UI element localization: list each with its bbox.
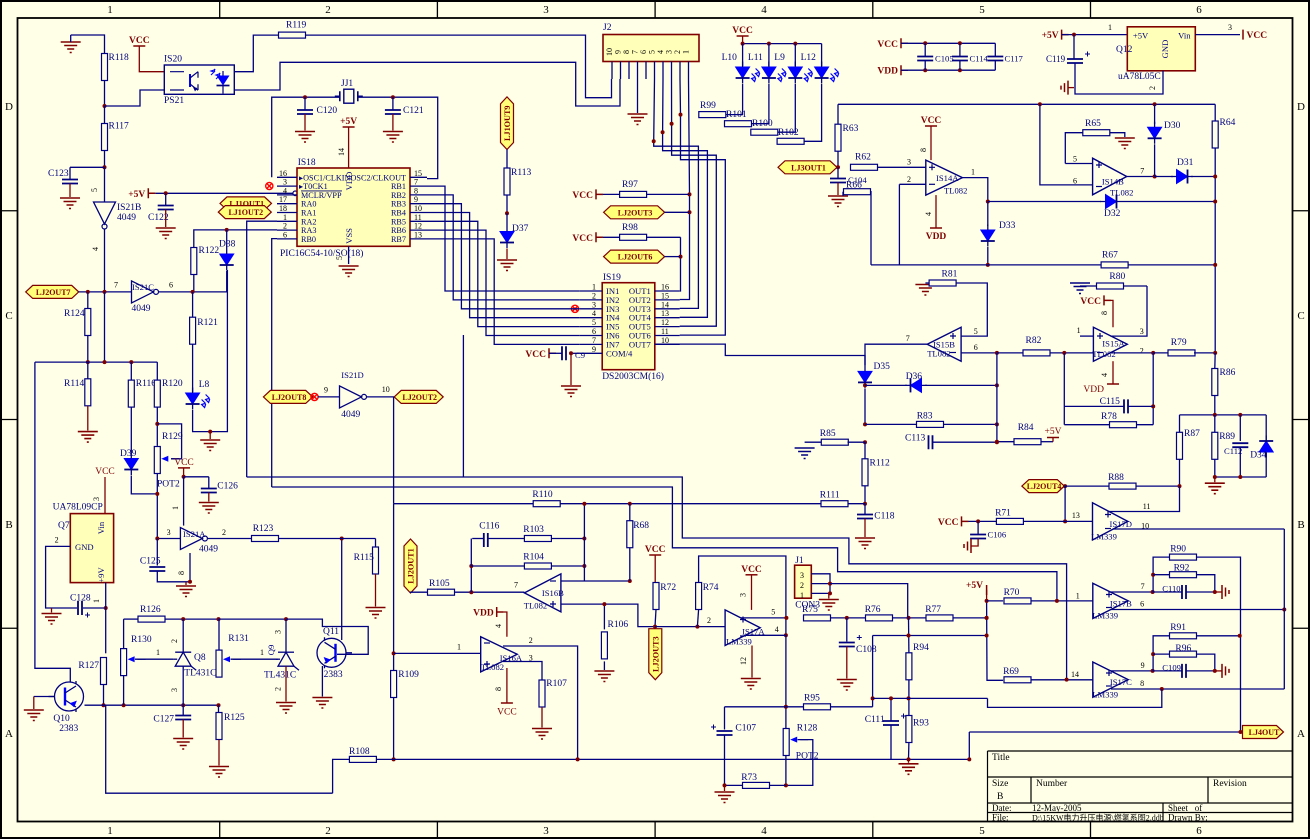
svg-text:5: 5	[335, 256, 344, 260]
svg-text:C111: C111	[865, 715, 885, 725]
svg-text:2: 2	[274, 687, 283, 691]
svg-text:C106: C106	[988, 530, 1007, 540]
svg-text:IS14B: IS14B	[1102, 177, 1124, 187]
resistor R99	[699, 101, 726, 118]
resistor R122	[191, 246, 220, 275]
svg-text:+5V: +5V	[340, 117, 357, 127]
junction	[155, 422, 159, 426]
port LJ2OUT2	[341, 370, 443, 420]
junction	[181, 617, 220, 621]
junction	[505, 211, 509, 215]
svg-text:3: 3	[167, 528, 171, 537]
port LJ2OUT6	[604, 250, 681, 263]
svg-text:R62: R62	[855, 153, 871, 163]
svg-text:RA3: RA3	[301, 226, 316, 235]
diode D38	[219, 230, 236, 271]
svg-text:JJ1: JJ1	[341, 79, 353, 89]
diode D30	[1148, 104, 1181, 144]
inverter IS21D	[318, 386, 367, 408]
power VCC	[92, 467, 115, 514]
resistor R86	[1212, 353, 1236, 415]
svg-text:C121: C121	[403, 106, 424, 116]
junction	[164, 191, 168, 195]
svg-text:5: 5	[974, 327, 978, 336]
capacitor C111	[865, 696, 906, 759]
junction	[1151, 652, 1155, 656]
resistor R103	[523, 525, 584, 542]
LED L12	[801, 44, 839, 84]
resistor R104	[471, 553, 584, 570]
svg-text:8: 8	[414, 186, 418, 195]
svg-text:MCLR/VPP: MCLR/VPP	[301, 191, 342, 200]
resistor R96	[1153, 644, 1215, 671]
junction	[182, 475, 186, 479]
wire	[873, 635, 987, 637]
resistor R118	[102, 53, 129, 81]
svg-text:B: B	[5, 519, 12, 531]
capacitor C126	[199, 477, 238, 513]
svg-text:LM339: LM339	[726, 637, 752, 647]
wire	[865, 344, 927, 366]
junction	[784, 616, 788, 620]
svg-text:C9: C9	[575, 350, 585, 360]
wire	[306, 35, 612, 98]
svg-text:12: 12	[414, 222, 422, 231]
wire	[71, 35, 105, 54]
wire	[830, 584, 908, 618]
transistor Q10	[49, 681, 84, 734]
resistor R94	[906, 618, 929, 680]
svg-text:7: 7	[414, 178, 418, 187]
diode D32	[1100, 195, 1122, 220]
svg-text:R107: R107	[546, 679, 567, 689]
svg-text:IS21C: IS21C	[132, 282, 154, 292]
svg-text:R73: R73	[741, 773, 757, 783]
svg-text:3: 3	[543, 825, 549, 837]
wire	[123, 676, 125, 706]
svg-text:C116: C116	[479, 522, 499, 532]
resistor R114	[64, 362, 91, 406]
wire	[104, 229, 106, 292]
wire	[987, 601, 1004, 680]
wire	[87, 336, 89, 363]
wire	[1064, 486, 1066, 521]
wire	[193, 275, 195, 292]
svg-text:4: 4	[283, 186, 287, 195]
svg-text:R115: R115	[354, 553, 374, 563]
svg-text:LM339: LM339	[1092, 611, 1118, 621]
resistor R77	[925, 605, 986, 621]
svg-text:R98: R98	[622, 223, 638, 233]
wire	[85, 704, 104, 706]
resistor R105	[428, 579, 455, 595]
capacitor C128	[70, 594, 91, 618]
wire	[741, 608, 786, 618]
svg-text:VDD: VDD	[473, 609, 494, 619]
wire	[752, 84, 769, 124]
svg-text:Q10: Q10	[53, 714, 70, 724]
svg-text:TL431C: TL431C	[264, 671, 296, 681]
wire	[488, 538, 525, 540]
svg-text:LJ2OUT1: LJ2OUT1	[407, 548, 416, 584]
junction	[1151, 351, 1155, 355]
LED L10	[722, 44, 760, 84]
svg-text:R71: R71	[995, 509, 1011, 519]
svg-text:1: 1	[1076, 592, 1080, 601]
junction	[907, 634, 911, 638]
power +5V	[128, 188, 297, 200]
svg-text:15: 15	[414, 169, 422, 178]
junction	[1213, 475, 1243, 479]
svg-text:6: 6	[1073, 177, 1077, 186]
junction	[1151, 590, 1155, 594]
svg-text:+5V: +5V	[1045, 427, 1062, 437]
svg-text:R89: R89	[1219, 432, 1235, 442]
svg-text:D: D	[5, 101, 13, 113]
resistor R98	[603, 223, 681, 240]
svg-text:R84: R84	[1018, 423, 1034, 433]
resistor R84	[997, 423, 1053, 445]
junction	[784, 633, 788, 637]
resistor R100	[751, 119, 778, 135]
svg-text:LJ2OUT2: LJ2OUT2	[402, 393, 437, 402]
wire	[871, 264, 1102, 266]
power +5V	[337, 117, 357, 168]
svg-text:RB0: RB0	[301, 235, 316, 244]
svg-text:13: 13	[1072, 511, 1080, 520]
wire	[672, 79, 717, 326]
resistor R63	[835, 124, 859, 151]
svg-text:R120: R120	[162, 379, 183, 389]
svg-text:5: 5	[592, 318, 596, 327]
svg-text:OSC2/CLKOUT: OSC2/CLKOUT	[351, 173, 407, 182]
junction	[1178, 484, 1182, 488]
wire	[987, 600, 1004, 602]
svg-text:12: 12	[739, 657, 748, 665]
svg-text:Drawn By:: Drawn By:	[1168, 812, 1208, 822]
wire	[427, 213, 580, 318]
svg-text:C128: C128	[70, 594, 91, 604]
wire	[411, 591, 428, 594]
svg-text:10: 10	[414, 204, 422, 213]
svg-text:GND: GND	[1160, 40, 1170, 59]
svg-text:R112: R112	[870, 459, 890, 469]
svg-text:RA2: RA2	[301, 217, 316, 226]
comparator IS17D	[1091, 502, 1150, 542]
svg-text:VDD: VDD	[926, 232, 947, 242]
junction	[1151, 573, 1155, 577]
svg-text:VCC: VCC	[174, 458, 194, 468]
junction	[1213, 669, 1217, 673]
svg-text:1: 1	[156, 648, 160, 657]
svg-text:4: 4	[761, 4, 767, 16]
ground	[200, 432, 220, 451]
wire	[70, 166, 105, 168]
wire	[743, 43, 822, 45]
svg-text:VCC: VCC	[129, 36, 150, 46]
junction	[340, 537, 344, 541]
svg-text:LJ1OUT9: LJ1OUT9	[503, 105, 512, 141]
wire	[358, 97, 438, 178]
svg-text:C: C	[1297, 310, 1304, 322]
op-amp IS15A	[1077, 326, 1144, 361]
svg-text:uA78L05C: uA78L05C	[1118, 72, 1161, 82]
svg-text:VSS: VSS	[344, 228, 354, 244]
TL431 Q9	[264, 630, 299, 691]
svg-text:2: 2	[592, 291, 596, 300]
op-amp IS14B	[1073, 155, 1144, 198]
svg-text:D39: D39	[120, 449, 137, 459]
wire	[898, 184, 900, 265]
svg-text:R63: R63	[843, 124, 859, 134]
svg-text:R74: R74	[703, 583, 719, 593]
svg-text:R102: R102	[778, 128, 799, 138]
svg-text:+9V: +9V	[96, 567, 106, 583]
junction	[695, 625, 699, 629]
svg-text:3: 3	[283, 178, 287, 187]
junction	[469, 590, 473, 594]
wire	[679, 237, 682, 291]
resistor R82	[997, 336, 1094, 356]
junction	[995, 383, 999, 387]
svg-text:C112: C112	[1224, 446, 1242, 456]
wire	[663, 79, 708, 317]
svg-text:R69: R69	[1003, 667, 1019, 677]
junction	[1038, 102, 1157, 106]
port LJ3OUT1	[778, 161, 837, 174]
svg-text:8: 8	[1100, 311, 1109, 315]
resistor R97	[603, 180, 690, 197]
svg-text:2: 2	[1148, 86, 1157, 90]
svg-text:3: 3	[592, 300, 596, 309]
wire	[1215, 476, 1266, 478]
svg-text:TL082: TL082	[481, 662, 504, 672]
svg-text:VCC: VCC	[741, 565, 762, 575]
ground small	[1061, 81, 1074, 95]
svg-text:5: 5	[979, 4, 985, 16]
svg-text:2: 2	[800, 581, 804, 590]
svg-text:R99: R99	[700, 101, 716, 111]
port LJ2OUT3	[604, 206, 690, 219]
wire	[394, 758, 970, 760]
resistor R124	[64, 309, 91, 336]
svg-text:R95: R95	[804, 694, 820, 704]
svg-text:2: 2	[707, 616, 711, 625]
resistor R115	[354, 539, 379, 607]
resistor R101	[725, 110, 752, 127]
svg-text:Vin: Vin	[96, 521, 106, 534]
junction	[986, 200, 990, 204]
resistor R75	[802, 605, 865, 621]
wire	[1080, 335, 1093, 337]
port LJ1OUT2	[218, 206, 271, 219]
junction	[628, 579, 632, 583]
wire	[46, 536, 77, 609]
svg-text:C123: C123	[48, 169, 69, 179]
capacitor C104	[828, 167, 867, 206]
wire	[655, 344, 865, 366]
svg-text:2383: 2383	[324, 670, 343, 680]
ground	[561, 351, 581, 396]
junction	[1213, 590, 1217, 594]
ground small	[497, 249, 517, 271]
svg-text:R93: R93	[913, 719, 929, 729]
svg-text:D35: D35	[874, 362, 891, 372]
wire	[901, 43, 995, 70]
svg-text:TL431C: TL431C	[184, 669, 216, 679]
junction	[995, 440, 999, 444]
wire	[680, 79, 690, 300]
wire	[35, 361, 157, 363]
ground	[628, 79, 648, 125]
junction	[1213, 413, 1243, 417]
junction	[1151, 669, 1155, 673]
svg-text:R97: R97	[622, 180, 638, 190]
svg-text:R101: R101	[726, 110, 747, 120]
junction	[582, 502, 631, 506]
svg-text:R128: R128	[797, 724, 818, 734]
wire	[654, 79, 699, 308]
wire	[506, 150, 508, 169]
svg-text:16: 16	[279, 169, 287, 178]
port LJ2OUT8	[263, 390, 312, 403]
wire	[104, 151, 106, 168]
wire	[156, 407, 158, 446]
junction	[907, 616, 911, 620]
svg-text:2: 2	[529, 636, 533, 645]
svg-text:RB6: RB6	[391, 226, 406, 235]
wire	[962, 178, 987, 202]
LED L11	[748, 44, 786, 84]
comparator IS17C	[1071, 662, 1132, 700]
resistor R62	[851, 153, 926, 171]
svg-text:B: B	[997, 792, 1003, 802]
connector J1	[795, 556, 830, 611]
svg-text:2: 2	[325, 825, 331, 837]
svg-text:6: 6	[1196, 825, 1202, 837]
svg-text:▸T0CK1: ▸T0CK1	[299, 182, 328, 191]
wire	[104, 292, 106, 362]
wire	[393, 504, 395, 671]
wire	[104, 81, 106, 107]
wire	[1113, 528, 1285, 530]
svg-text:TL082: TL082	[944, 186, 967, 196]
svg-text:GND: GND	[75, 542, 94, 552]
resistor R127	[78, 658, 106, 685]
regulator Q12 uA78L05C	[1116, 27, 1195, 82]
wire	[34, 696, 54, 698]
wire	[1127, 176, 1155, 178]
junction	[284, 617, 288, 621]
wire	[207, 538, 252, 540]
wire	[1109, 486, 1180, 511]
svg-text:13: 13	[661, 309, 669, 318]
junction	[652, 139, 656, 143]
resistor R72	[653, 583, 676, 610]
wire	[171, 477, 184, 526]
svg-text:1: 1	[283, 213, 287, 222]
svg-text:Number: Number	[1036, 779, 1068, 789]
svg-text:C117: C117	[1005, 54, 1024, 64]
svg-text:2: 2	[283, 222, 287, 231]
junction	[828, 582, 832, 596]
svg-text:IS21B: IS21B	[117, 203, 141, 213]
svg-text:CON3: CON3	[795, 601, 820, 611]
power VCC	[919, 116, 941, 160]
svg-text:R91: R91	[1170, 623, 1186, 633]
svg-text:R67: R67	[1102, 251, 1118, 261]
svg-text:18: 18	[279, 204, 287, 213]
wire	[503, 662, 542, 681]
wire	[680, 79, 726, 335]
capacitor C116	[471, 522, 499, 567]
svg-text:R72: R72	[660, 583, 676, 593]
wire	[837, 104, 839, 124]
resistor R120	[154, 362, 183, 407]
svg-text:5: 5	[979, 825, 985, 837]
wire	[848, 441, 866, 443]
svg-text:Q7: Q7	[58, 521, 70, 531]
optocoupler IS20 PS21	[164, 55, 234, 107]
resistor R107	[539, 679, 567, 707]
svg-text:LJ2OUT7: LJ2OUT7	[36, 288, 71, 297]
junction	[392, 651, 396, 655]
svg-text:R80: R80	[1109, 272, 1125, 282]
power VCC	[732, 26, 753, 44]
resistor R66	[843, 181, 871, 265]
junction	[845, 616, 849, 620]
svg-text:R104: R104	[523, 553, 544, 563]
svg-text:C115: C115	[1100, 397, 1120, 407]
capacitor C122	[148, 193, 176, 238]
wire	[872, 636, 874, 707]
ground small	[1215, 664, 1229, 678]
svg-text:13: 13	[414, 230, 422, 239]
resistor R117	[102, 122, 129, 151]
junction	[723, 783, 727, 787]
wire	[968, 732, 970, 759]
ground	[61, 35, 81, 53]
svg-text:4: 4	[1100, 373, 1109, 377]
wire	[279, 538, 376, 540]
wire	[969, 731, 1245, 733]
wire	[583, 504, 585, 581]
diode D33	[981, 202, 1016, 247]
ground	[819, 593, 839, 610]
svg-text:1: 1	[971, 168, 975, 177]
wire	[778, 84, 795, 132]
svg-text:R100: R100	[752, 119, 773, 129]
resistor R111	[820, 491, 865, 507]
svg-text:VCC: VCC	[1247, 31, 1268, 41]
svg-text:R92: R92	[1174, 564, 1190, 574]
capacitor C125	[140, 557, 190, 582]
svg-text:8: 8	[1140, 679, 1144, 688]
wire	[864, 388, 866, 424]
wire	[988, 201, 1101, 203]
junction	[863, 383, 867, 444]
svg-text:7: 7	[1141, 582, 1145, 591]
svg-text:11: 11	[414, 213, 422, 222]
svg-text:R70: R70	[1004, 588, 1020, 598]
svg-text:2: 2	[325, 4, 331, 16]
svg-text:D34: D34	[1250, 451, 1267, 461]
svg-text:L10: L10	[722, 53, 738, 63]
capacitor C123	[48, 167, 80, 208]
wire	[286, 619, 368, 654]
svg-text:8: 8	[919, 148, 928, 152]
wire	[123, 619, 125, 649]
